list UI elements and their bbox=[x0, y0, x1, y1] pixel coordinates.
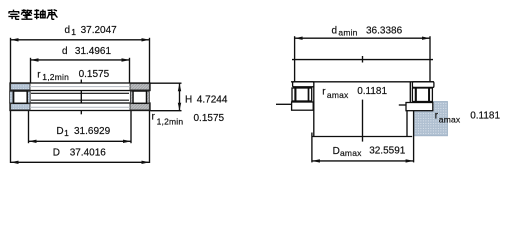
svg-text:1,2min: 1,2min bbox=[42, 72, 69, 82]
svg-text:r: r bbox=[152, 111, 156, 122]
svg-text:31.4961: 31.4961 bbox=[75, 46, 112, 57]
svg-text:r: r bbox=[322, 87, 326, 98]
svg-text:r: r bbox=[37, 69, 41, 80]
svg-text:37.2047: 37.2047 bbox=[81, 25, 118, 36]
svg-text:D: D bbox=[53, 147, 60, 158]
svg-text:amax: amax bbox=[340, 148, 362, 158]
svg-text:1: 1 bbox=[64, 128, 69, 138]
svg-text:0.1575: 0.1575 bbox=[194, 113, 225, 124]
svg-text:36.3386: 36.3386 bbox=[366, 25, 403, 36]
svg-text:H: H bbox=[185, 95, 192, 106]
svg-text:d: d bbox=[65, 25, 71, 36]
svg-text:1: 1 bbox=[71, 27, 76, 37]
svg-text:31.6929: 31.6929 bbox=[74, 126, 111, 137]
svg-text:0.1575: 0.1575 bbox=[79, 69, 110, 80]
svg-text:32.5591: 32.5591 bbox=[369, 146, 406, 157]
svg-text:amax: amax bbox=[327, 90, 349, 100]
svg-text:37.4016: 37.4016 bbox=[70, 147, 107, 158]
svg-text:d: d bbox=[332, 25, 338, 36]
svg-text:D: D bbox=[333, 146, 340, 157]
svg-text:0.1181: 0.1181 bbox=[357, 86, 387, 97]
svg-text:D: D bbox=[56, 126, 63, 137]
svg-text:4.7244: 4.7244 bbox=[197, 95, 228, 106]
svg-text:0.1181: 0.1181 bbox=[470, 111, 500, 122]
svg-text:1,2min: 1,2min bbox=[157, 116, 184, 126]
svg-text:amax: amax bbox=[439, 114, 461, 124]
svg-text:d: d bbox=[62, 46, 68, 57]
svg-text:amin: amin bbox=[338, 28, 357, 38]
